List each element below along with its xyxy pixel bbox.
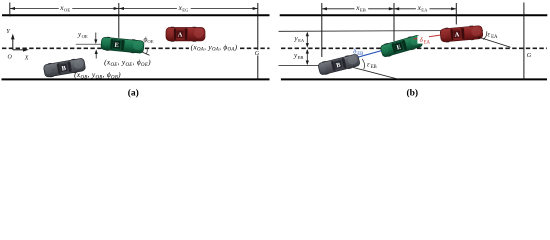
svg-text:G: G (527, 52, 532, 59)
dimension line x_EA (b) (394, 8, 456, 10)
dimension tick left (a) (9, 3, 11, 17)
svg-text:EB: EB (371, 65, 377, 70)
y_OE down arrow (95, 33, 97, 43)
Y axis (12, 36, 14, 50)
road bottom edge (b) (281, 78, 547, 80)
trajectory line at car A front (478, 37, 511, 47)
dimension tick right above car A (b) (455, 3, 457, 25)
svg-text:ε: ε (488, 31, 491, 38)
dimension line x_EB (b) (322, 8, 394, 10)
trajectory line at car B front (352, 67, 400, 80)
X axis (13, 49, 27, 51)
y_EA double arrow (306, 33, 308, 46)
car E (b) green (380, 34, 424, 59)
car A (b) red (440, 25, 483, 43)
svg-text:A: A (178, 32, 183, 39)
svg-text:EG: EG (182, 7, 189, 12)
dimension tick left above car B (b) (321, 3, 323, 57)
svg-text:EA: EA (491, 35, 498, 40)
label x_OE (59, 4, 73, 13)
svg-text:EA: EA (424, 41, 431, 46)
svg-text:OE: OE (64, 7, 70, 12)
dimension line x_EG (a) (119, 8, 258, 10)
y_OE up arrow (95, 51, 97, 58)
sight line delta_EB (blue) from B to E (344, 50, 384, 61)
svg-text:EB: EB (357, 52, 363, 57)
svg-text:OE: OE (82, 34, 88, 39)
lane center dashed line (b) (281, 47, 547, 49)
svg-text:G: G (255, 50, 260, 57)
svg-text:EB: EB (360, 8, 366, 13)
svg-text:ε: ε (367, 61, 370, 68)
dimension line x_OE (a) (10, 8, 119, 10)
heading line phi_OE at car E front (137, 50, 150, 56)
svg-text:(b): (b) (406, 87, 418, 98)
car B (b) gray (317, 53, 360, 76)
label x_EG (177, 4, 191, 13)
svg-text:E: E (114, 42, 119, 49)
road top edge (a) (2, 14, 270, 16)
goal line G (a) (257, 3, 259, 80)
dimension tick middle above car E (a) (118, 3, 120, 38)
svg-text:EA: EA (421, 8, 428, 13)
lane center dashed line (a) (2, 47, 270, 49)
svg-text:EA: EA (298, 38, 305, 43)
angle arc epsilon_EA at car A front (483, 31, 487, 39)
road top edge (b) (280, 14, 548, 16)
angle arc phi_OE (146, 49, 149, 54)
car B (a) gray (43, 57, 86, 78)
text (x_OA, y_OA, phi_OA) (189, 43, 240, 51)
y_EB double arrow (306, 50, 308, 64)
goal line G (b) (523, 3, 525, 80)
svg-text:X: X (24, 56, 29, 62)
car A (a) red (166, 27, 205, 42)
angle arc epsilon_EB at car B front (362, 59, 364, 70)
label G (a) (255, 50, 262, 56)
sight line delta_EA (red) from E to A (414, 35, 444, 39)
svg-text:OE: OE (147, 39, 153, 44)
svg-text:O: O (8, 55, 13, 61)
lateral ref line top (b) (279, 30, 484, 33)
car E (a) green (101, 36, 145, 54)
label x_EB (355, 4, 369, 13)
y_OE lateral ref line at car E rear (76, 43, 104, 45)
dimension tick middle above car E (b) (393, 3, 395, 41)
svg-text:EB: EB (298, 55, 304, 60)
road bottom edge (a) (2, 78, 270, 80)
lateral ref line bottom (b) (279, 65, 341, 67)
label delta_EA (red) (417, 36, 429, 44)
label x_EA (416, 4, 430, 13)
svg-text:(a): (a) (128, 87, 139, 98)
